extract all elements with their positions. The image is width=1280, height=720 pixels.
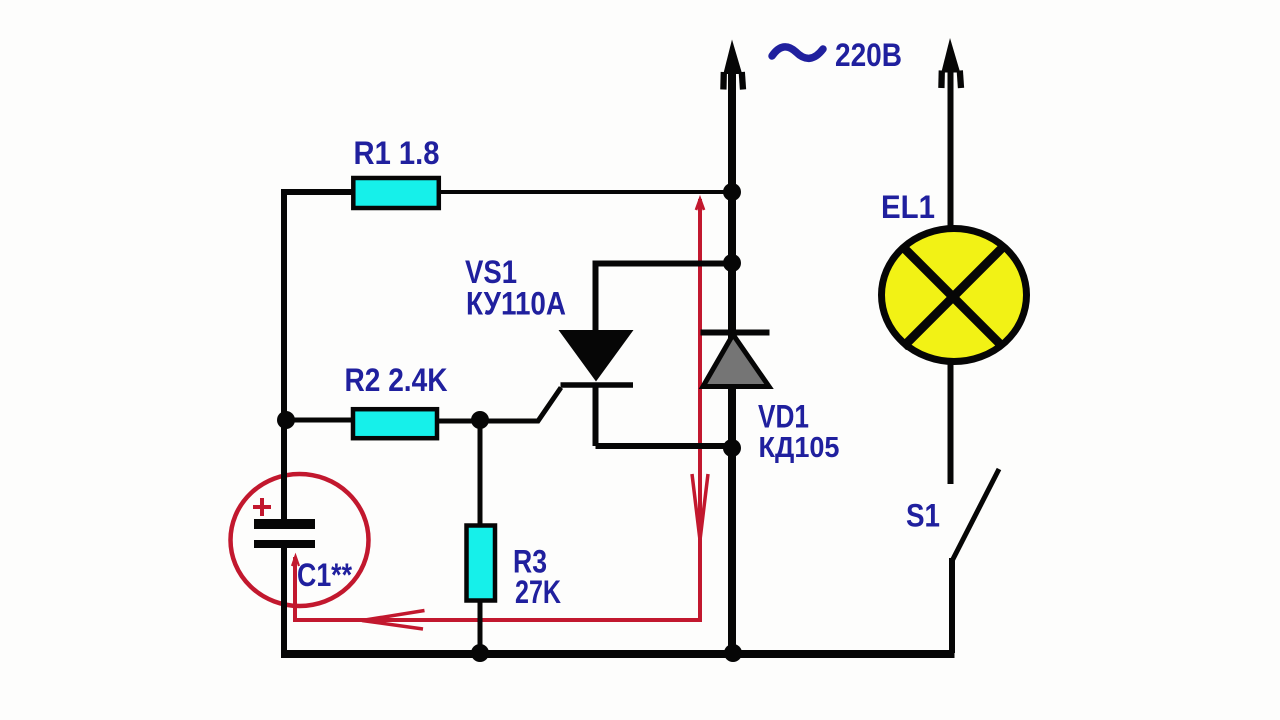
svg-text:VD1: VD1	[758, 399, 809, 435]
svg-text:220В: 220В	[835, 37, 902, 73]
svg-text:R2 2.4K: R2 2.4K	[345, 362, 448, 398]
svg-text:КУ110А: КУ110А	[466, 286, 566, 322]
svg-text:C1**: C1**	[297, 557, 352, 593]
svg-text:S1: S1	[906, 498, 940, 534]
svg-text:27K: 27K	[515, 574, 561, 610]
svg-text:КД105: КД105	[759, 432, 840, 464]
svg-text:EL1: EL1	[881, 189, 935, 225]
svg-text:R1 1.8: R1 1.8	[354, 135, 440, 171]
